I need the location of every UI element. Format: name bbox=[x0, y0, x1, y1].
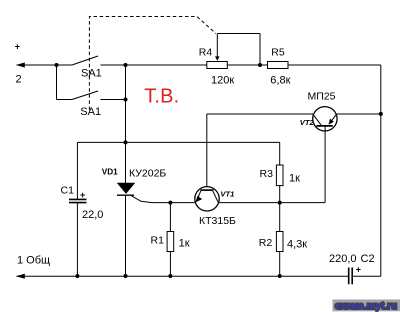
svg-text:1к: 1к bbox=[179, 238, 190, 250]
svg-text:+: + bbox=[356, 265, 361, 275]
svg-text:22,0: 22,0 bbox=[82, 209, 103, 221]
svg-text:220,0: 220,0 bbox=[329, 253, 357, 265]
svg-text:VT2: VT2 bbox=[300, 118, 315, 127]
svg-text:1 Общ: 1 Общ bbox=[17, 255, 50, 267]
svg-text:R1: R1 bbox=[151, 235, 165, 247]
svg-text:VD1: VD1 bbox=[102, 168, 118, 177]
svg-text:R5: R5 bbox=[271, 47, 285, 59]
svg-text:КУ202Б: КУ202Б bbox=[129, 168, 166, 180]
svg-text:R2: R2 bbox=[259, 237, 273, 249]
svg-text:R4: R4 bbox=[199, 47, 213, 59]
svg-text:R3: R3 bbox=[260, 168, 274, 180]
svg-text:КТ315Б: КТ315Б bbox=[199, 215, 236, 227]
svg-text:SA1: SA1 bbox=[80, 106, 101, 118]
svg-text:схема.myt.ru: схема.myt.ru bbox=[335, 301, 397, 312]
svg-text:6,8к: 6,8к bbox=[270, 75, 290, 87]
svg-text:4,3к: 4,3к bbox=[287, 238, 307, 250]
svg-text:120к: 120к bbox=[211, 75, 234, 87]
svg-text:+: + bbox=[15, 42, 20, 52]
svg-text:SA1: SA1 bbox=[81, 68, 102, 80]
svg-text:+: + bbox=[80, 190, 85, 200]
svg-text:VT1: VT1 bbox=[220, 189, 234, 198]
svg-text:С1: С1 bbox=[61, 185, 75, 197]
svg-text:2: 2 bbox=[16, 74, 22, 86]
svg-text:С2: С2 bbox=[361, 253, 375, 265]
svg-text:Т.В.: Т.В. bbox=[144, 85, 179, 107]
svg-text:1к: 1к bbox=[289, 172, 300, 184]
svg-text:МП25: МП25 bbox=[308, 90, 336, 102]
